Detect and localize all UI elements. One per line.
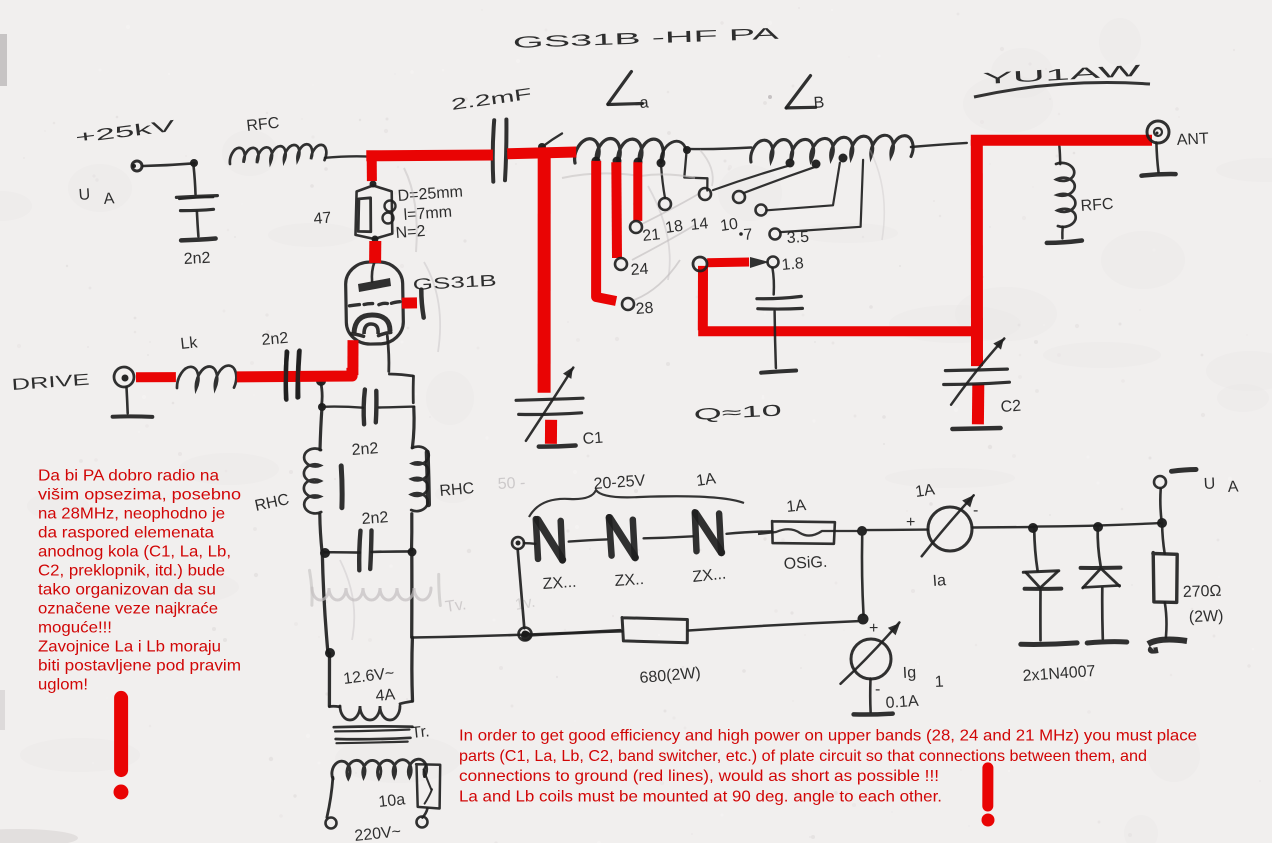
wire red tap 21 <box>633 162 642 221</box>
node junction at 2n2 bypass <box>190 159 198 167</box>
svg-text:1.8: 1.8 <box>781 255 805 274</box>
svg-text:+: + <box>906 514 915 531</box>
node cap to La junction <box>538 143 546 151</box>
svg-text:3.5: 3.5 <box>786 229 809 247</box>
node diode bus 1 <box>1028 523 1038 533</box>
svg-text:2n2: 2n2 <box>183 250 211 268</box>
svg-text:2n2: 2n2 <box>361 509 389 528</box>
svg-text:ZX...: ZX... <box>692 566 727 586</box>
wire red grid stub <box>402 297 417 308</box>
wire fuse to terminal <box>422 809 427 818</box>
brace 20-25V range <box>529 490 744 517</box>
ground below Ig1 meter <box>869 679 872 712</box>
svg-text:l=7mm: l=7mm <box>403 204 453 224</box>
diode zener ZX 2 <box>609 517 612 555</box>
wire to -UA terminal <box>1160 489 1161 522</box>
node 220V terminal right <box>417 817 428 828</box>
capacitor C1 variable plates <box>516 398 583 400</box>
svg-text:Tr.: Tr. <box>411 723 431 742</box>
wire right rail to transformer <box>410 552 413 637</box>
diode D2 1N4007 <box>1098 528 1101 566</box>
svg-text:C1: C1 <box>582 430 604 448</box>
svg-text:tako organizovan da su: tako organizovan da su <box>38 582 216 599</box>
label minus UA <box>1172 470 1197 472</box>
resistor 47 parasitic suppressor <box>356 185 374 239</box>
transformer Tr primary 220V <box>332 759 427 779</box>
wire grid rail top <box>322 407 363 408</box>
node top of 47R <box>370 181 377 188</box>
wire tap to 3.5 <box>780 160 863 232</box>
meter Ig1 <box>851 639 891 679</box>
svg-text:a: a <box>639 94 649 112</box>
node diode bus 2 <box>1093 522 1103 532</box>
wire junction down <box>321 381 323 406</box>
label La <box>608 72 632 105</box>
svg-text:+: + <box>869 620 878 637</box>
svg-text:uglom!: uglom! <box>38 677 88 694</box>
wire red ground bus to C2 <box>698 326 977 336</box>
node tap 21 <box>630 221 642 233</box>
node La tap dots <box>592 157 601 166</box>
tube anode plate <box>372 263 374 282</box>
node tap 18 <box>659 198 671 210</box>
wire pencil tap curves <box>632 193 700 300</box>
inductor Lb <box>751 135 913 162</box>
svg-text:C2, preklopnik, itd.) bude: C2, preklopnik, itd.) bude <box>38 563 225 580</box>
capacitor C2 variable plates <box>945 369 1007 371</box>
diode zener ZX 3 <box>695 512 697 551</box>
svg-text:1: 1 <box>934 674 944 691</box>
wire tap 18 vertical <box>661 166 665 198</box>
svg-text:RHC: RHC <box>439 480 475 500</box>
node tap 24 <box>615 258 627 270</box>
wire red bus to ANT <box>971 135 1152 146</box>
wire red anode bus right <box>507 152 576 154</box>
node 680 line left <box>519 628 532 641</box>
svg-text:ANT: ANT <box>1176 130 1209 149</box>
node tap 1.8 <box>768 257 779 268</box>
wire UA to junction <box>143 163 195 166</box>
wire red C2 vertical <box>971 140 983 366</box>
node lower rail left <box>320 548 330 558</box>
wire right rail down <box>412 408 414 448</box>
svg-text:7: 7 <box>743 226 753 244</box>
svg-text:na 28MHz, neophodno je: na 28MHz, neophodno je <box>38 506 225 523</box>
svg-text:4A: 4A <box>375 686 396 705</box>
transformer Tr core <box>334 725 413 729</box>
tube GS31B envelope <box>345 262 403 345</box>
svg-text:Lk: Lk <box>180 334 200 353</box>
label Lb <box>786 76 810 108</box>
node 220V terminal left <box>326 818 337 829</box>
svg-text:A: A <box>103 190 115 208</box>
wire red below C2 <box>972 384 984 424</box>
wire red anode bus left <box>366 150 493 162</box>
svg-text:14: 14 <box>690 215 710 234</box>
node UA HV input terminal <box>132 161 142 171</box>
wire red tap 24 <box>611 162 622 258</box>
wire junction down to grid meter line <box>862 537 864 615</box>
node bottom of 47R <box>372 236 379 243</box>
wire RFC to anode bus <box>325 156 372 157</box>
node tap 14 <box>699 188 711 200</box>
inductor La <box>575 139 664 163</box>
ground at DRIVE <box>127 387 128 413</box>
ground below 270 ohm <box>1148 640 1187 651</box>
svg-text:1v.: 1v. <box>514 594 537 614</box>
node cathode circuit junction <box>316 376 326 386</box>
svg-text:Tv.: Tv. <box>444 596 467 616</box>
wire pencil ghost sketch <box>312 588 431 600</box>
wire red tap 28 <box>596 161 616 301</box>
svg-text:-: - <box>973 502 978 519</box>
svg-text:OSiG.: OSiG. <box>783 554 827 573</box>
transformer Tr secondary 12.6V <box>329 705 339 708</box>
svg-text:označene veze najkraće: označene veze najkraće <box>38 601 218 618</box>
svg-text:parts (C1, La, Lb, C2, band sw: parts (C1, La, Lb, C2, band switcher, et… <box>459 748 1147 765</box>
inductor RFC choke right <box>411 447 429 512</box>
wire red wiper down <box>698 266 708 330</box>
wire La to Lb <box>687 148 751 150</box>
tube grid tick overlay <box>421 290 423 318</box>
wire step to tap 14 <box>684 151 707 191</box>
capacitor 2n2 drive coupling <box>286 352 287 400</box>
meter Ia <box>928 507 972 551</box>
node bias rail junction <box>521 631 531 641</box>
ground below D1 <box>1021 643 1077 645</box>
ground below antenna RFC <box>1047 241 1082 243</box>
svg-text:270Ω: 270Ω <box>1183 583 1222 601</box>
red exclamation right <box>982 768 993 806</box>
svg-text:20-25V: 20-25V <box>593 472 646 493</box>
inductor Lk <box>177 366 236 390</box>
svg-text:2n2: 2n2 <box>261 330 289 349</box>
tube cathode <box>354 315 390 333</box>
wire zener chain segments <box>524 542 536 545</box>
node zener chain left <box>512 537 524 549</box>
node lower rail right <box>408 548 417 557</box>
wire red stub to 47R top <box>367 158 377 181</box>
svg-text:2n2: 2n2 <box>351 440 379 459</box>
ground below ANT <box>1156 143 1158 173</box>
wire 1.8 cap to ground overlay <box>775 311 776 368</box>
svg-text:In order to get good efficienc: In order to get good efficiency and high… <box>459 728 1197 745</box>
node fuse out junction <box>857 526 867 536</box>
wire tap diagonal to 10 <box>744 167 816 193</box>
wire Lb out <box>911 143 967 147</box>
svg-text:21: 21 <box>642 226 662 245</box>
inductor RFC antenna <box>1058 146 1061 164</box>
svg-text:Ig: Ig <box>902 664 916 682</box>
wire left rail down <box>320 407 322 450</box>
svg-text:ZX...: ZX... <box>542 574 577 593</box>
capacitor 2n2 grid lower <box>359 531 360 571</box>
svg-text:Zavojnice La i Lb moraju: Zavojnice La i Lb moraju <box>38 639 221 656</box>
node tap 3.5 <box>770 229 781 240</box>
capacitor 2n2 grid upper <box>364 390 365 425</box>
svg-text:RFC: RFC <box>1080 196 1114 215</box>
capacitor drive coupling bars overlay <box>284 352 289 399</box>
ground below D2 <box>1087 642 1127 643</box>
wire left rail to transformer <box>322 553 328 653</box>
svg-text:A: A <box>1227 478 1239 496</box>
wire diode bus <box>1033 523 1162 527</box>
wire red 47R to tube anode <box>369 241 381 263</box>
tube grid dashes <box>350 305 360 306</box>
fuse OSIG 1A <box>772 521 835 544</box>
svg-text:24: 24 <box>630 261 649 279</box>
svg-text:B: B <box>813 94 825 112</box>
wire cathode leads <box>387 336 389 372</box>
svg-text:moguće!!!: moguće!!! <box>38 620 112 637</box>
switch wiper arrowhead <box>750 257 769 268</box>
svg-text:U: U <box>1203 475 1215 493</box>
capacitor 2.2mF coupling <box>493 120 494 182</box>
red exclamation left <box>114 698 128 770</box>
wire red drive segment 2 <box>237 368 352 377</box>
node diode bus 3 <box>1157 518 1167 528</box>
resistor 270 ohm <box>1162 524 1165 554</box>
svg-text:C2: C2 <box>1000 398 1022 416</box>
wire pencil texture marks <box>562 173 695 178</box>
svg-text:Ia: Ia <box>932 572 947 590</box>
capacitor loading at 1.8 tap <box>772 268 774 295</box>
wire tap diagonal to 14 <box>713 165 790 190</box>
svg-text:47: 47 <box>313 209 332 227</box>
svg-text:ZX..: ZX.. <box>614 571 644 590</box>
svg-text:-: - <box>875 681 880 698</box>
node -UA terminal <box>1154 476 1166 488</box>
node grid rail left top <box>318 403 326 411</box>
svg-text:(2W): (2W) <box>1189 608 1224 626</box>
wire red C1 to ground <box>545 420 557 444</box>
node switch wiper <box>693 257 707 271</box>
capacitor 2n2 HV bypass <box>194 165 196 194</box>
svg-text:10: 10 <box>719 216 739 235</box>
wire to Ia meter <box>866 528 928 531</box>
wire grid rail lower <box>322 551 360 554</box>
diode D1 1N4007 <box>1034 529 1037 571</box>
node tap 7 <box>756 205 767 216</box>
svg-text:10a: 10a <box>378 791 406 811</box>
svg-text:50 -: 50 - <box>497 475 525 493</box>
node tap 28 <box>622 298 634 310</box>
svg-text:connections to ground (red lin: connections to ground (red lines), would… <box>459 768 939 785</box>
inductor RFC choke left <box>304 449 321 514</box>
ground below 2n2 bypass <box>181 239 216 241</box>
node heater tap left <box>325 648 335 658</box>
svg-text:0.1A: 0.1A <box>885 693 919 712</box>
svg-text:1A: 1A <box>695 470 717 490</box>
ground below 1.8 cap <box>761 371 796 373</box>
ground below C2 <box>952 428 1000 429</box>
wire Ia meter out <box>973 526 1034 529</box>
fuse 10A mains <box>416 764 440 808</box>
wire red cathode stub <box>347 340 358 375</box>
inductor RFC anode feed <box>230 144 326 164</box>
wire red vertical to C1 <box>538 152 551 393</box>
wire red wiper to 1.8 <box>707 258 749 268</box>
svg-text:biti postavljene pod pravim: biti postavljene pod pravim <box>38 658 241 675</box>
svg-text:N=2: N=2 <box>395 223 426 242</box>
svg-text:La and Lb coils must be mounte: La and Lb coils must be mounted at 90 de… <box>459 788 942 805</box>
svg-text:U: U <box>78 186 91 204</box>
svg-text:1A: 1A <box>786 497 808 516</box>
wire zener node down <box>518 550 525 629</box>
svg-text:Da bi PA dobro radio na: Da bi PA dobro radio na <box>38 468 219 485</box>
svg-text:28: 28 <box>635 300 654 318</box>
node grid meter junction <box>858 614 869 625</box>
diode zener ZX 1 <box>536 519 538 559</box>
resistor 680 2W <box>622 618 687 643</box>
wire bias rail <box>412 635 526 638</box>
node ANT terminal <box>1147 121 1169 143</box>
svg-text:da raspored elemenata: da raspored elemenata <box>38 525 214 542</box>
ground below C1 <box>539 446 576 447</box>
svg-text:1A: 1A <box>914 481 936 501</box>
wire tap to 7 <box>767 163 840 211</box>
svg-text:anodnog kola (C1, La, Lb,: anodnog kola (C1, La, Lb, <box>38 544 231 561</box>
node Lb tap dots <box>786 159 795 168</box>
wire red drive segment 1 <box>136 372 176 382</box>
node DRIVE terminal <box>114 367 134 387</box>
svg-text:RFC: RFC <box>246 115 280 135</box>
svg-text:višim opsezima, posebno: višim opsezima, posebno <box>38 487 241 504</box>
node tap 10 <box>733 191 745 203</box>
